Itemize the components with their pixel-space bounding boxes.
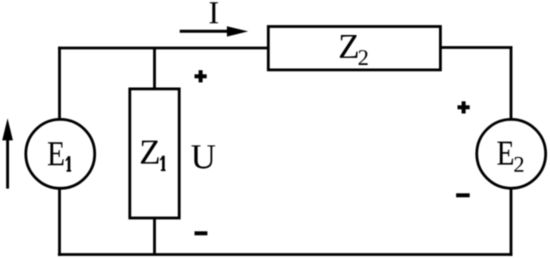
polarity - (near E2 bottom) [456,193,470,197]
wire: right vertical lower [510,188,513,256]
arrow: current I (shaft) [180,30,229,33]
label Z2: subscript 2 [359,50,368,65]
impedance Z1 (box) [130,89,179,218]
label Z1: Z [141,141,159,164]
arrow: EMF direction up (shaft) [6,138,9,189]
polarity - (near Z1 bottom) [195,231,208,235]
polarity + (near Z1 top) [195,70,207,82]
label E2: subscript 2 [514,157,523,172]
wire: top horizontal right segment (Z2 to top-right corner) [440,46,513,49]
label E1: subscript 1 [65,156,71,172]
wire: right vertical upper [510,46,513,119]
source E2 (circle) [477,119,546,188]
label E1: E [48,142,64,165]
wire: Z1 branch lower (junction on bottom wire) [153,218,156,255]
arrow: EMF direction up (head) [2,118,13,140]
polarity + (near E2 top) [458,101,470,113]
impedance Z2 (box) [268,27,440,70]
label I [210,2,218,23]
label E2: E [497,142,513,165]
wire: Z1 branch upper (junction on top wire) [153,48,156,90]
wire: left vertical lower [58,188,61,256]
label U [191,145,215,168]
source E1 (circle) [26,119,95,188]
wire: left vertical upper [58,47,61,120]
arrow: current I (head) [227,26,248,36]
wire: bottom horizontal [58,253,512,256]
wire: top horizontal left segment [58,47,269,50]
label Z2: Z [340,35,358,58]
label Z1: subscript 1 [160,156,166,171]
